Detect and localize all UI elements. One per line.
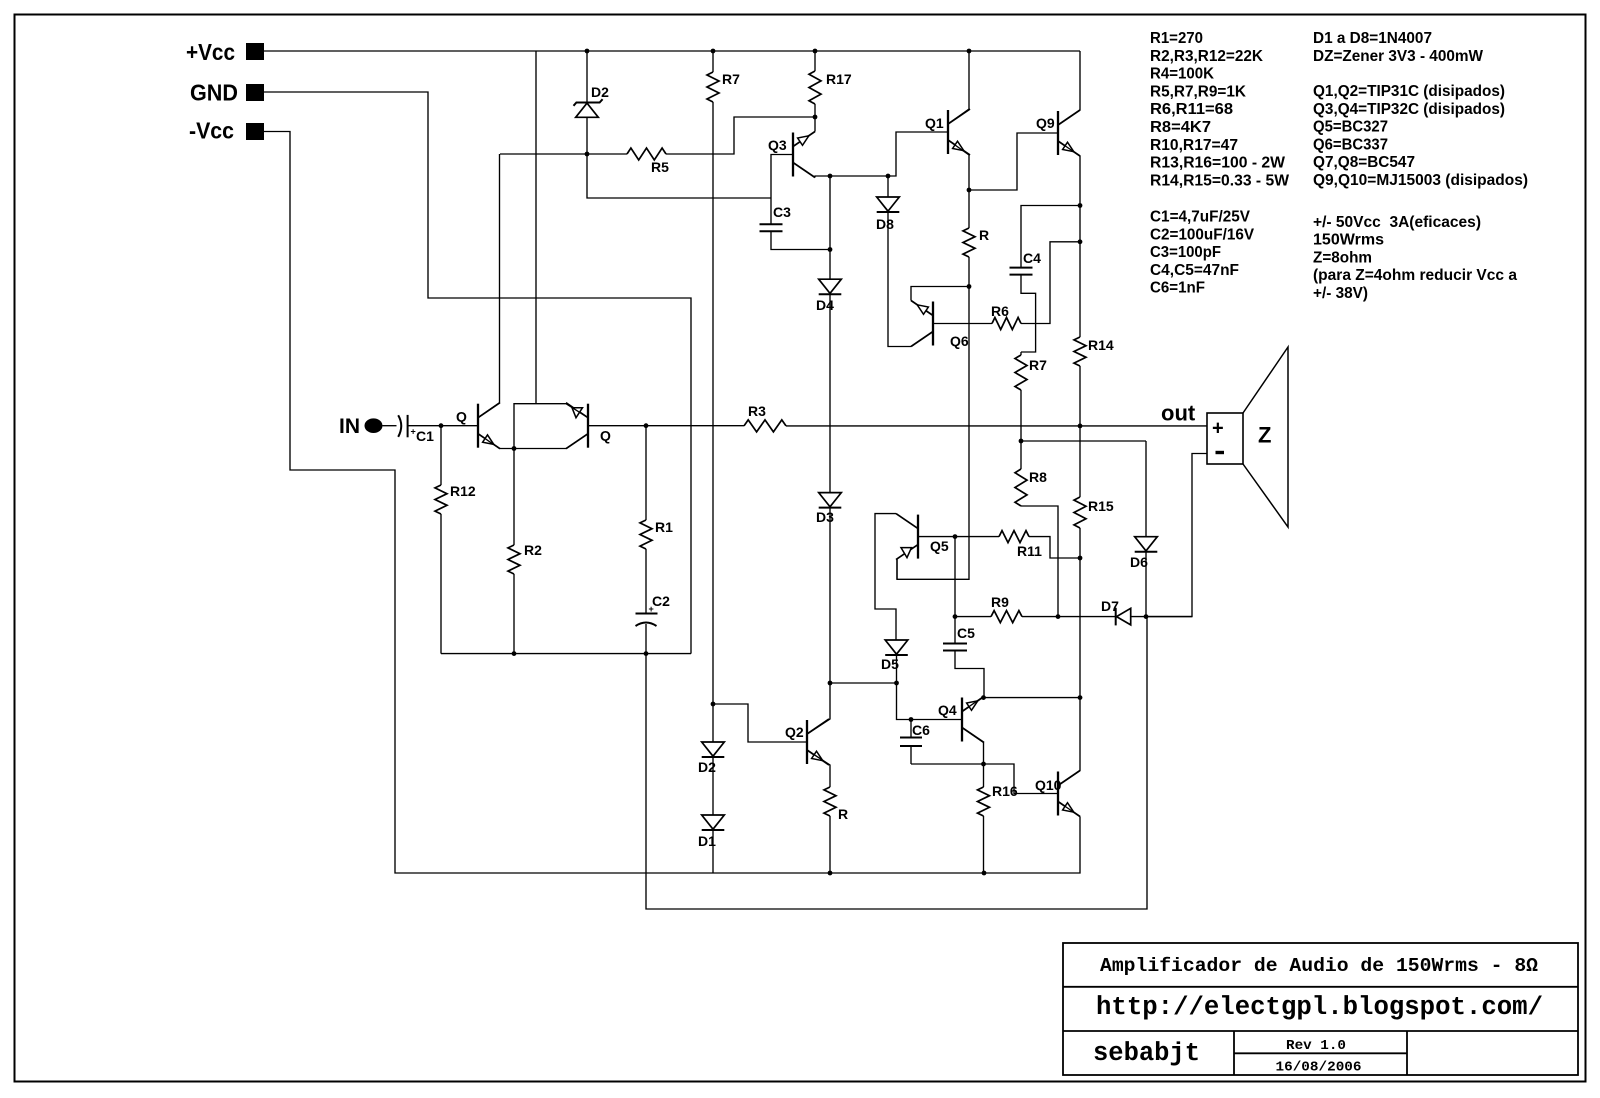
svg-text:Amplificador de Audio de 150Wr: Amplificador de Audio de 150Wrms - 8Ω (1100, 955, 1538, 977)
diode D3 (819, 493, 842, 508)
title text (1100, 955, 1538, 977)
title block divider v1 (1233, 1031, 1235, 1075)
value note R6,R11 (1150, 101, 1233, 118)
wire Q9 emitter node down (1079, 206, 1081, 242)
svg-text:D2: D2 (591, 84, 609, 100)
junction Q7 emitter/Q8 (512, 446, 517, 451)
value note C6 (1150, 280, 1205, 297)
junction +Vcc/R17 (813, 49, 818, 54)
svg-text:Rev 1.0: Rev 1.0 (1286, 1038, 1346, 1054)
svg-text:R14,R15=0.33 - 5W: R14,R15=0.33 - 5W (1150, 172, 1290, 189)
transistor Q6 label (950, 333, 969, 349)
svg-text:R6,R11=68: R6,R11=68 (1150, 101, 1233, 118)
speaker - terminal label (1216, 451, 1225, 454)
svg-text:Q4: Q4 (938, 702, 957, 718)
resistor R14 label (1088, 337, 1114, 353)
svg-text:C3: C3 (773, 204, 791, 220)
diode D4 (819, 279, 842, 294)
value note R2,R3,R12 (1150, 48, 1263, 65)
svg-text:R: R (838, 806, 848, 822)
wire Q1 emitter to Q9 base (969, 133, 1058, 190)
junction C1/R12/Q7 base (439, 423, 444, 428)
resistor R11 (955, 531, 1080, 558)
value note R4 (1150, 66, 1214, 83)
junction Q3 collector node (828, 174, 833, 179)
node +Vcc terminal label (186, 39, 235, 65)
svg-text:+/- 50Vcc 3A(eficaces): +/- 50Vcc 3A(eficaces) (1313, 214, 1481, 231)
svg-text:D1 a D8=1N4007: D1 a D8=1N4007 (1313, 30, 1432, 47)
wire Q2 emitter to R13 (807, 750, 830, 787)
svg-text:Q1,Q2=TIP31C (disipados): Q1,Q2=TIP31C (disipados) (1313, 83, 1505, 100)
svg-text:IN: IN (339, 415, 360, 438)
junction -Vcc rail/R16 (982, 871, 987, 876)
junction R9/R8 column (1056, 614, 1061, 619)
wire Q4 emitter row (962, 697, 984, 712)
svg-text:C3=100pF: C3=100pF (1150, 244, 1221, 261)
spec note (1313, 232, 1384, 249)
svg-text:Q6: Q6 (950, 333, 969, 349)
transistor Q1 label (925, 115, 944, 131)
resistor R11 label (1017, 543, 1042, 559)
wire C6 bottom row (911, 763, 984, 765)
value note R8 (1150, 119, 1211, 136)
transistor Q8 label Q (600, 428, 611, 444)
transistor Q5 label (930, 538, 949, 554)
wire Q8 collector loop (514, 434, 588, 449)
capacitor C5 label (957, 625, 975, 641)
wire C1 to Q7 base (408, 425, 478, 427)
wire Q6 emitter to R10 node (911, 287, 969, 301)
wire Q5 base (918, 536, 955, 538)
junction D6/D7/feedback (1144, 614, 1149, 619)
resistor R9 (955, 611, 1116, 623)
svg-text:Q2: Q2 (785, 724, 804, 740)
value note C2 (1150, 226, 1254, 243)
wire Q8 base to R3 node (588, 425, 646, 427)
junction rail/R2 (512, 651, 517, 656)
svg-text:C5: C5 (957, 625, 975, 641)
svg-text:Q9: Q9 (1036, 115, 1055, 131)
resistor R1 (640, 426, 652, 549)
wire Q1 collector (948, 51, 969, 124)
junction Q8 base/R1/R3 (644, 423, 649, 428)
transistor Q7 label Q (456, 409, 467, 425)
wire +Vcc rail (264, 50, 1080, 52)
node +Vcc terminal pad (246, 43, 264, 60)
title block divider 1 (1063, 986, 1578, 988)
svg-text:D7: D7 (1101, 598, 1119, 614)
svg-text:D5: D5 (881, 656, 899, 672)
resistor R7 (top) (707, 51, 719, 102)
junction C3/D4 column (828, 247, 833, 252)
svg-text:R5: R5 (651, 159, 669, 175)
capacitor C4 (1010, 268, 1033, 275)
wire D4 to D3 (829, 294, 831, 492)
resistor R10 label R (979, 227, 989, 243)
resistor R2 label (524, 542, 542, 558)
value note Q5 (1313, 119, 1388, 136)
svg-text:R: R (979, 227, 989, 243)
wire +Vcc drop to Q8 (535, 51, 537, 404)
title block divider v2 (1406, 1031, 1408, 1075)
junction C6 top (909, 717, 914, 722)
svg-text:R10,R17=47: R10,R17=47 (1150, 137, 1238, 154)
junction Q4 emitter row/R15 column (1078, 695, 1083, 700)
wire D8 node to Q1 base (888, 132, 948, 176)
transistor Q6 (911, 301, 933, 347)
value note C4,C5 (1150, 262, 1239, 279)
svg-text:Q6=BC337: Q6=BC337 (1313, 136, 1388, 153)
resistor R9 label (991, 594, 1009, 610)
resistor R13 label R (838, 806, 848, 822)
svg-text:D4: D4 (816, 297, 834, 313)
resistor R14 (1074, 242, 1086, 426)
svg-text:Z=8ohm: Z=8ohm (1313, 249, 1372, 266)
wire Q6 base row R6 (933, 323, 992, 325)
wire Q3 collector (815, 176, 830, 178)
transistor Q8 (input pair, mirrored) (566, 403, 588, 449)
svg-text:Q3,Q4=TIP32C (disipados): Q3,Q4=TIP32C (disipados) (1313, 101, 1505, 118)
diode D4 label (816, 297, 834, 313)
svg-text:R4=100K: R4=100K (1150, 66, 1214, 83)
resistor R8 (1015, 439, 1058, 617)
wire Q9 collector from +Vcc (1058, 51, 1080, 125)
transistor Q4 (962, 697, 984, 743)
wire D3 to Q2 collector node (829, 508, 831, 683)
value note Q6 (1313, 136, 1388, 153)
wire Q3 base column (771, 155, 793, 225)
resistor R3 label (748, 403, 766, 419)
junction Q4 emitter/C5 branch (981, 695, 986, 700)
resistor R16 label (992, 783, 1018, 799)
junction Q6 emitter/R10 (967, 284, 972, 289)
junction Q9 emitter/C4 (1078, 203, 1083, 208)
resistor R5 label (651, 159, 669, 175)
svg-text:16/08/2006: 16/08/2006 (1276, 1060, 1362, 1076)
value note DZ (1313, 48, 1484, 65)
svg-text:C2=100uF/16V: C2=100uF/16V (1150, 226, 1254, 243)
node -Vcc terminal label (189, 118, 234, 144)
junction Q1 emitter/R10/Q9 base (967, 188, 972, 193)
svg-text:Z: Z (1258, 423, 1271, 448)
svg-text:R1=270: R1=270 (1150, 30, 1203, 47)
wire IN to C1 (383, 425, 397, 427)
resistor R10 (963, 190, 975, 287)
diode D5 (885, 640, 908, 683)
svg-text:R7: R7 (722, 71, 740, 87)
svg-text:Q5: Q5 (930, 538, 949, 554)
value note R13,R16 (1150, 155, 1286, 172)
svg-text:sebabjt: sebabjt (1093, 1039, 1200, 1068)
date text (1276, 1060, 1362, 1076)
capacitor C6 label (912, 722, 930, 738)
resistor R17 label (826, 71, 852, 87)
svg-text:+/- 38V): +/- 38V) (1313, 285, 1368, 302)
wire C5 column (954, 537, 956, 644)
diode D3 label (816, 509, 834, 525)
title block frame (1063, 943, 1578, 1075)
junction D5/Q2 row (894, 681, 899, 686)
node IN pad (365, 418, 383, 433)
diode D5 label (881, 656, 899, 672)
wire R7 long column to D2/D1 (712, 102, 714, 704)
wire R5 row to Q7 collector (500, 153, 587, 155)
title block divider 2 (1063, 1030, 1578, 1032)
wire Q3 collector to D8 node (830, 175, 888, 177)
resistor R6 (992, 242, 1080, 330)
value note R14,R15 (1150, 172, 1290, 189)
svg-text:R1: R1 (655, 519, 673, 535)
svg-text:R7: R7 (1029, 357, 1047, 373)
wire C5 bottom to Q4 emitter node (955, 651, 984, 698)
diode D1 label (698, 833, 716, 849)
transistor Q3 label (768, 137, 787, 153)
svg-text:C1: C1 (416, 428, 434, 444)
junction DZ/R5 (585, 152, 590, 157)
value note R10,R17 (1150, 137, 1238, 154)
value note R5,R7,R9 (1150, 83, 1246, 100)
capacitor C2 label (652, 593, 670, 609)
rev text (1286, 1038, 1346, 1054)
diode D7 label (1101, 598, 1119, 614)
junction out row/R14-R15 (1078, 424, 1083, 429)
zener D2 label (591, 84, 609, 100)
svg-text:DZ=Zener 3V3 - 400mW: DZ=Zener 3V3 - 400mW (1313, 48, 1484, 65)
svg-text:D8: D8 (876, 216, 894, 232)
capacitor C1 (398, 415, 407, 437)
wire C4 bottom to R7 branch (1021, 275, 1036, 352)
capacitor C1 polarity + (411, 427, 416, 437)
svg-text:R17: R17 (826, 71, 852, 87)
wire D7 anode to D6 column (1131, 616, 1192, 618)
svg-text:+: + (1212, 418, 1224, 440)
spec note (1313, 267, 1517, 284)
diode D1 (702, 757, 725, 873)
junction R7 column/Q2 base (711, 702, 716, 707)
value note Q3,Q4 (1313, 101, 1505, 118)
junction R6/R14 node (1078, 239, 1083, 244)
transistor Q3 (793, 132, 815, 178)
svg-text:Q1: Q1 (925, 115, 944, 131)
resistor R13 (824, 787, 836, 873)
svg-text:R14: R14 (1088, 337, 1114, 353)
url text (1096, 993, 1543, 1022)
spec note (1313, 249, 1372, 266)
wire Q4 emitter node to R15 column (984, 697, 1081, 699)
wire DZ node down to Q3 base node (587, 154, 771, 198)
wire Q9 emitter (1058, 141, 1080, 206)
capacitor C1 value label C1 (416, 428, 434, 444)
svg-text:R3: R3 (748, 403, 766, 419)
svg-text:R8: R8 (1029, 469, 1047, 485)
svg-text:D1: D1 (698, 833, 716, 849)
diode D6 label (1130, 554, 1148, 570)
junction +Vcc/DZ (585, 49, 590, 54)
transistor Q4 label (938, 702, 957, 718)
transistor Q10 label (1035, 777, 1062, 793)
wire Q10 collector (1058, 698, 1080, 786)
svg-text:C4,C5=47nF: C4,C5=47nF (1150, 262, 1239, 279)
svg-text:R9: R9 (991, 594, 1009, 610)
svg-text:C1=4,7uF/25V: C1=4,7uF/25V (1150, 209, 1250, 226)
value note D1-D8 (1313, 30, 1432, 47)
diode D8 (877, 176, 900, 212)
junction Q5 base/C5 column (953, 534, 958, 539)
wire R15 column down (1079, 558, 1081, 698)
spec note (1313, 285, 1368, 302)
wire Q8 emitter loop (514, 404, 588, 449)
junction Q4 collector/C6/R16 (981, 762, 986, 767)
resistor R15 (1074, 426, 1086, 558)
resistor R7 (top) label (722, 71, 740, 87)
svg-text:Q: Q (456, 409, 467, 425)
capacitor C4 label (1023, 250, 1041, 266)
svg-text:C4: C4 (1023, 250, 1041, 266)
transistor Q10 (1058, 771, 1080, 817)
svg-text:Q9,Q10=MJ15003 (disipados): Q9,Q10=MJ15003 (disipados) (1313, 172, 1528, 189)
wire Q2 collector row to D5 (830, 682, 897, 684)
svg-text:R15: R15 (1088, 498, 1114, 514)
spec note (1313, 214, 1481, 231)
node -Vcc terminal pad (246, 123, 264, 140)
transistor Q1 (948, 109, 970, 155)
svg-text:Q: Q (600, 428, 611, 444)
resistor R17 (809, 51, 821, 117)
resistor R7 (VAS) label (1029, 357, 1047, 373)
speaker impedance label Z (1258, 423, 1271, 448)
junction Q2 collector/D3 (828, 681, 833, 686)
node GND terminal label (190, 80, 238, 106)
svg-text:-Vcc: -Vcc (189, 118, 234, 144)
junction +Vcc/R7 (711, 49, 716, 54)
svg-text:+: + (411, 427, 416, 437)
transistor Q9 (1058, 110, 1080, 156)
svg-text:Q10: Q10 (1035, 777, 1062, 793)
svg-text:C2: C2 (652, 593, 670, 609)
diode D8 label (876, 216, 894, 232)
resistor R7 (VAS) (1015, 352, 1027, 441)
wire D8 to Q6 collector (888, 213, 911, 347)
resistor R15 label (1088, 498, 1114, 514)
transistor Q5 (896, 514, 918, 560)
wire -Vcc to negative rail (264, 132, 1080, 874)
junction R11/R15 column (1078, 556, 1083, 561)
wire input-stage ground rail (441, 653, 691, 655)
resistor R5 (587, 117, 815, 160)
resistor R12 (435, 426, 447, 654)
svg-text:http://electgpl.blogspot.com/: http://electgpl.blogspot.com/ (1096, 993, 1543, 1022)
junction -Vcc rail/R13 (828, 871, 833, 876)
wire Q7 collector to R5 node (478, 154, 500, 418)
svg-text:R5,R7,R9=1K: R5,R7,R9=1K (1150, 83, 1246, 100)
resistor R2 (508, 449, 520, 654)
node IN label (339, 415, 360, 438)
wire R10 column down to Q5 emitter (897, 287, 969, 580)
diode D6 (1135, 441, 1158, 617)
svg-text:C6=1nF: C6=1nF (1150, 280, 1205, 297)
diode D7 (1116, 608, 1131, 626)
capacitor C2 (polarized) (636, 549, 658, 654)
junction rail/C2 (644, 651, 649, 656)
resistor R3 (646, 420, 1207, 432)
svg-text:R2,R3,R12=22K: R2,R3,R12=22K (1150, 48, 1263, 65)
node out label (1161, 401, 1196, 426)
title block divider h3 (1234, 1052, 1407, 1054)
capacitor C6 (900, 720, 922, 765)
svg-text:R6: R6 (991, 303, 1009, 319)
junction +Vcc/Q1 collector (967, 49, 972, 54)
value note Q1,Q2 (1313, 83, 1505, 100)
capacitor C5 (943, 644, 967, 651)
svg-text:out: out (1161, 401, 1196, 426)
value note R1 (1150, 30, 1203, 47)
wire Q5 emitter (896, 559, 898, 580)
speaker Z terminal box (1207, 413, 1243, 464)
wire Q4 collector (962, 728, 984, 765)
resistor R1 label (655, 519, 673, 535)
resistor R8 label (1029, 469, 1047, 485)
resistor R6 label (991, 303, 1009, 319)
junction R9/C5 (953, 614, 958, 619)
value note Q7,Q8 (1313, 154, 1415, 171)
wire Q10 emitter (1058, 802, 1080, 817)
svg-text:Q5=BC327: Q5=BC327 (1313, 119, 1388, 136)
transistor Q9 label (1036, 115, 1055, 131)
wire Q3 node down to D4 (829, 176, 831, 279)
wire C2 node to feedback line (646, 617, 1147, 909)
wire Q10 base row (984, 764, 1059, 794)
svg-text:D6: D6 (1130, 554, 1148, 570)
author text (1093, 1039, 1200, 1068)
capacitor C3 (760, 224, 831, 249)
wire Q2 base jog (713, 704, 807, 742)
wire C4 top branch (1021, 206, 1080, 268)
svg-text:R13,R16=100 - 2W: R13,R16=100 - 2W (1150, 155, 1286, 172)
svg-text:(para Z=4ohm reducir Vcc a: (para Z=4ohm reducir Vcc a (1313, 267, 1517, 284)
wire speaker - return (1146, 454, 1207, 617)
svg-text:GND: GND (190, 80, 238, 106)
value note C1 (1150, 209, 1250, 226)
svg-text:Q3: Q3 (768, 137, 787, 153)
wire Q1 emitter (948, 140, 969, 190)
svg-text:150Wrms: 150Wrms (1313, 232, 1384, 249)
diode D2 (bias) label (698, 759, 716, 775)
svg-text:+Vcc: +Vcc (186, 39, 235, 65)
junction D8 top (886, 174, 891, 179)
zener diode D2 (DZ) (574, 51, 603, 154)
node GND terminal pad (246, 84, 264, 101)
junction R17/Q3 emitter (813, 115, 818, 120)
speaker horn (1243, 347, 1288, 527)
speaker + terminal label (1212, 418, 1224, 440)
wire Q5 collector loop to D5 (875, 514, 896, 640)
transistor Q2 label (785, 724, 804, 740)
wire R8 node row (1021, 440, 1146, 442)
wire GND to input-stage rail (264, 92, 691, 654)
resistor R12 label (450, 483, 476, 499)
capacitor C2 polarity + (649, 604, 654, 614)
svg-text:R2: R2 (524, 542, 542, 558)
svg-text:R12: R12 (450, 483, 476, 499)
capacitor C3 label (773, 204, 791, 220)
wire Q7 emitter (478, 434, 514, 449)
svg-text:R8=4K7: R8=4K7 (1150, 119, 1211, 136)
diode D2 (bias) (702, 704, 725, 757)
value note C3 (1150, 244, 1221, 261)
wire Q2 collector (807, 683, 830, 734)
wire D5 node down to C6 row (897, 683, 963, 720)
wire Q3 emitter up (814, 117, 816, 132)
